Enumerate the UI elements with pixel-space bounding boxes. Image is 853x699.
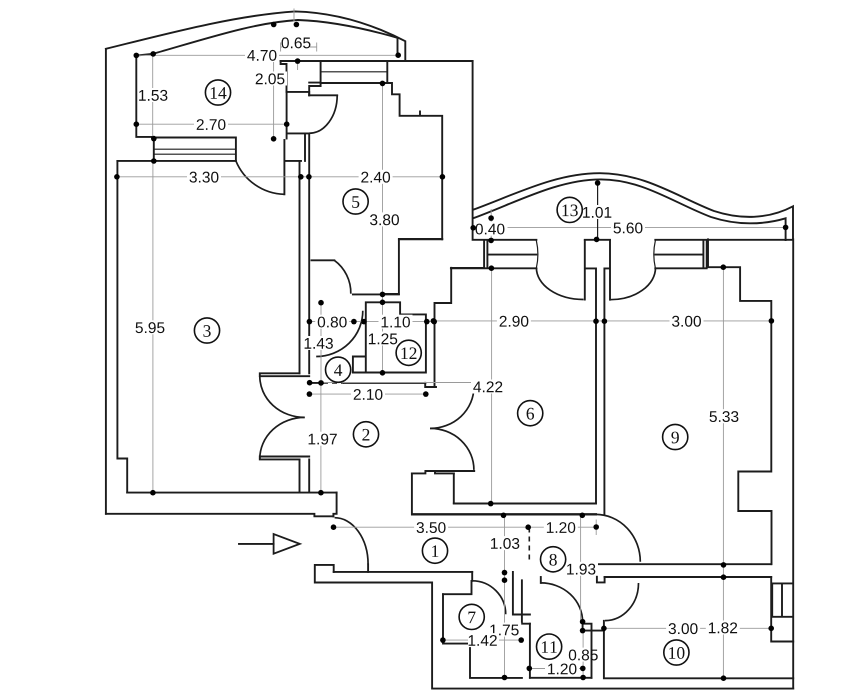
node room 4 [326, 357, 351, 382]
door D3 hall leaf [312, 259, 335, 261]
wire room 9 northeast steps [708, 239, 772, 564]
dim 2.90 3.00 line [433, 320, 771, 322]
value 1.25 [368, 332, 399, 346]
wire room 6 bay top [451, 267, 484, 269]
node room 13 [557, 197, 582, 222]
door DD1 rooms 3/2 bottom stub [260, 457, 309, 460]
value 1.97 [306, 432, 340, 446]
arrow entrance triangle [274, 534, 300, 554]
wire room 14 left wall [136, 56, 154, 137]
window W4 left bracket [654, 241, 656, 268]
wire balcony 13 outer curve [473, 173, 793, 239]
value 5.95 [133, 320, 167, 334]
wire vestibule west wall [286, 92, 288, 139]
value 3.00 bottom [666, 621, 700, 635]
value 2.90 [497, 314, 531, 328]
label circled room numbers [194, 80, 689, 665]
door D9 room 7 arc [472, 581, 506, 615]
door DD1 rooms 3/2 top stub [260, 373, 309, 376]
wall pair rooms 3/2 lower [300, 459, 310, 492]
dim 3.30 2.40 line [117, 176, 443, 178]
wire room 4 north wall [353, 293, 399, 295]
value 5.33 [707, 409, 741, 423]
wire room 2 southeast wall [412, 473, 454, 514]
value 3.30 [187, 170, 221, 184]
value 1.42 [468, 633, 499, 647]
door D2 room 14 leaf [309, 94, 337, 96]
node room 5 [343, 189, 368, 214]
wire room 3 left wall with step [117, 161, 127, 493]
wire room 11 east wall [591, 631, 593, 678]
dim 1.93 line [580, 515, 582, 622]
door D10 room 11 arc [541, 583, 583, 622]
dim 3.80 1.25 line [382, 83, 384, 372]
dim 1.20 bottom line [528, 668, 583, 670]
wire bottom-left outer wall [106, 514, 333, 517]
door D1 room 3 arc [236, 161, 285, 194]
wire room 5 southeast wall [382, 239, 442, 294]
window W4 room 9 north [655, 240, 706, 268]
dim 5.60 0.40 line [473, 227, 785, 229]
wire room 3 bottom wall [127, 492, 336, 494]
node room 1 [422, 538, 447, 563]
dim 0.40 tick line [490, 209, 492, 240]
dim 2.70 line [136, 123, 286, 125]
wire rooms 7/11 wall pair [513, 572, 530, 624]
wire rooms 8-9 wall pair upper [597, 564, 771, 577]
value 0.80 [315, 315, 349, 329]
dim 2.10 line [309, 393, 425, 395]
door D-entry arc [335, 518, 369, 565]
value 1.43 [302, 336, 336, 350]
value 5.60 [611, 221, 645, 235]
value 2.40 [359, 170, 393, 184]
node room 7 [459, 604, 484, 629]
node room 12 [396, 340, 421, 365]
value 1.10 [379, 315, 413, 329]
dim 4.70 line [136, 54, 398, 56]
value 1.20 room8 [544, 520, 578, 534]
value 1.20 bottom [545, 662, 579, 676]
shaft box right [772, 583, 793, 616]
wire room 7 north wall [443, 581, 472, 594]
value 1.01 [584, 205, 614, 219]
door D2 room 14 arc [309, 95, 337, 133]
wire room 5 east zigzag [382, 83, 442, 239]
wire room 1 north wall [412, 513, 596, 515]
dim 1.03 1.75 line [504, 515, 506, 677]
wire room 1 south wall [334, 571, 473, 573]
value 1.82 [706, 621, 740, 635]
door D1 room 3 leaf [283, 140, 285, 194]
dim 3.00 1.82 bottom line [604, 627, 771, 629]
value 1.75 [487, 623, 521, 637]
node room 6 [518, 401, 543, 426]
dim 3.50 1.20 line [334, 520, 597, 536]
dim peak tick balcony 14 [293, 9, 295, 22]
window W1 room3 top band [154, 137, 236, 161]
wire top wall rooms 5 [281, 60, 473, 62]
value 3.80 [368, 212, 402, 226]
value 2.70 [194, 117, 228, 131]
dashed room 4 south opening [323, 382, 344, 384]
wire balcony 14 outer curve [106, 11, 405, 60]
dashed zone divider rooms 1/8 [528, 528, 530, 564]
wire room 11 west wall [529, 624, 531, 678]
dim 5.95 line [152, 162, 154, 493]
wall box rooms 11/10 [583, 624, 604, 631]
wire lobby northeast step [425, 268, 451, 387]
door D10 room 11 leaf [540, 577, 542, 583]
wire balcony 13 inner curve [473, 179, 785, 240]
dim 2.05 line [274, 62, 298, 139]
door D6 balcony arc right [610, 268, 656, 300]
door D7 room 8 upper arc [596, 514, 641, 561]
dim 0.85 line [582, 631, 584, 678]
value 3.00 [670, 314, 704, 328]
wire vestibule shelf [288, 132, 310, 134]
door D9 room 7 jamb [471, 572, 473, 581]
value 0.65 [282, 36, 310, 48]
dim 1.43 1.97 line [320, 303, 322, 493]
dim 0.65 line [281, 43, 317, 52]
label dimension texts [133, 36, 741, 676]
value 0.85 [567, 648, 590, 662]
wire entry door jamb [333, 493, 336, 517]
wire room 12 outline [353, 302, 426, 372]
value 3.50 [414, 520, 448, 534]
value 4.70 [245, 48, 279, 62]
wire entry lower outer wall [315, 565, 793, 689]
wire entry inner jamb [367, 564, 369, 572]
dim connector line [320, 382, 484, 384]
node room 11 [537, 634, 562, 659]
dim 1.42 line [443, 639, 522, 641]
node room 8 [541, 547, 566, 572]
node room 10 [664, 640, 689, 665]
wire balcony 14 inner curve [153, 20, 397, 55]
door DD2 rooms 2/6 arc upper [430, 387, 474, 428]
wire room 10 outline [604, 621, 793, 679]
door D5 balcony arc left [536, 268, 583, 300]
value 2.05 [253, 72, 287, 86]
arrow entrance line [239, 543, 274, 545]
wire room 5 west sill [309, 61, 320, 95]
node room 14 [205, 80, 230, 105]
window W2 room 5 top [321, 61, 388, 83]
value 2.10 [351, 387, 385, 401]
wire room 3 top wall [117, 160, 301, 162]
dim 1.01 line [597, 183, 599, 239]
window W3 room 6 north [451, 240, 537, 268]
door DD1 arc lower [260, 417, 305, 458]
door DD2 rooms 2/6 arc lower [430, 428, 474, 470]
value 4.22 [471, 380, 505, 394]
wire room 7 west and south [443, 594, 522, 678]
wire room 9 east wall lower [771, 577, 793, 642]
node room 2 [353, 422, 378, 447]
wire balcony 14 inner slant [136, 54, 153, 56]
window W3 right bracket [536, 241, 538, 268]
dim 4.22 line [491, 269, 493, 504]
dim 5.33 1.82 line [722, 267, 724, 678]
wire rooms 8-9 wall cap [597, 564, 605, 582]
value 1.53 [140, 88, 170, 102]
wire rooms 6-9 north wall [399, 61, 792, 240]
wire room 4 south wall solid part [309, 382, 425, 384]
wire room 6 south wall [454, 503, 596, 505]
wire rooms 6/9 wall pair [596, 269, 604, 515]
door D8 room 8 lower arc [605, 583, 639, 621]
node room 9 [663, 424, 688, 449]
wire rooms 5/3 west wall pair [300, 133, 310, 373]
wire rooms 2/6 bottom stub [412, 471, 474, 473]
wire room 14 right wall upper [281, 61, 310, 95]
wire right outer wall [792, 239, 794, 688]
wire left outer wall [105, 49, 107, 514]
value 1.93 [564, 562, 598, 576]
value 0.40 [477, 222, 508, 236]
door D3 hall arc [334, 260, 351, 293]
wire room 4 east niche [353, 357, 365, 373]
dim 0.80 1.10 line [309, 321, 434, 323]
wire room 11 south wall [530, 677, 592, 679]
value 1.03 [488, 536, 522, 550]
node room 3 [194, 318, 219, 343]
node dots dimension endpoints [114, 22, 788, 681]
door D4 room 4 arc [316, 311, 363, 357]
wall center post balcony doors [585, 240, 610, 299]
door DD1 arc upper [260, 376, 305, 417]
dim 1.53 line [152, 55, 154, 139]
